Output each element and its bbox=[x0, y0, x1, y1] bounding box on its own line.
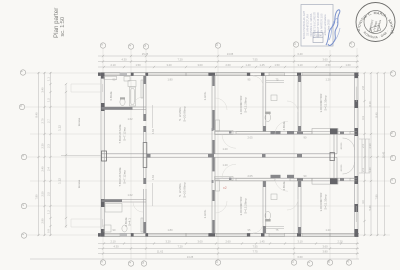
right dimension lines bbox=[365, 73, 385, 236]
svg-text:1.HOL: 1.HOL bbox=[203, 209, 207, 218]
bubble 4 left bbox=[21, 154, 26, 159]
svg-text:7.80: 7.80 bbox=[35, 194, 39, 200]
svg-text:2.DORMITOR: 2.DORMITOR bbox=[239, 196, 243, 216]
central wall columns bbox=[102, 143, 335, 168]
bubble 2' top bbox=[128, 44, 133, 49]
svg-text:7.55: 7.55 bbox=[252, 58, 258, 62]
top wall window boxes bbox=[102, 73, 355, 76]
svg-text:2.8: 2.8 bbox=[361, 86, 365, 90]
interior horizontal wall y=108 left bath top bbox=[105, 107, 147, 110]
svg-text:1.12: 1.12 bbox=[58, 125, 62, 131]
svg-text:2.3: 2.3 bbox=[361, 144, 365, 148]
svg-text:1.40: 1.40 bbox=[245, 63, 251, 67]
stamp faint text lines (rotated) bbox=[303, 11, 331, 40]
svg-text:4.0: 4.0 bbox=[361, 200, 365, 204]
bubble C bottom bbox=[291, 260, 296, 265]
axis F x=103 bbox=[102, 49, 104, 259]
central wall extension line left bbox=[61, 155, 101, 157]
bubble A bottom bbox=[346, 260, 351, 265]
svg-text:1.12: 1.12 bbox=[58, 178, 62, 184]
interior horizontal wall y=132 top unit bbox=[215, 132, 357, 135]
left dimension ticks bbox=[37, 72, 67, 236]
svg-text:6.40: 6.40 bbox=[297, 52, 303, 56]
svg-text:8.40: 8.40 bbox=[35, 112, 39, 118]
interior horizontal wall y=179 bottom unit bbox=[215, 178, 357, 181]
axis B x=330 bbox=[329, 50, 331, 259]
svg-text:1.62: 1.62 bbox=[151, 128, 155, 134]
svg-text:2.90: 2.90 bbox=[41, 218, 45, 224]
svg-text:1.HOL: 1.HOL bbox=[203, 91, 207, 100]
washing machine top-left bbox=[128, 81, 136, 87]
WC bottom bath2 bbox=[265, 211, 271, 221]
wall blocks top bath2 bbox=[271, 131, 281, 134]
bubble 2' bottom bbox=[128, 261, 133, 266]
svg-text:S=12.28mp: S=12.28mp bbox=[244, 97, 248, 113]
axis D x=218 bbox=[217, 49, 219, 259]
porch wall stubs at x=334 bbox=[334, 134, 337, 178]
right wall openings bbox=[355, 87, 357, 222]
column at left wall bbox=[102, 151, 107, 161]
svg-text:terasa: terasa bbox=[77, 118, 81, 127]
svg-text:16.45: 16.45 bbox=[382, 151, 386, 158]
counter top-left bath bbox=[104, 76, 117, 79]
central party wall bbox=[101, 154, 337, 158]
svg-text:1.62: 1.62 bbox=[127, 193, 133, 197]
interior vertical wall x=144 segments bbox=[144, 76, 147, 233]
svg-text:1:50: 1:50 bbox=[315, 34, 321, 38]
svg-text:2.60: 2.60 bbox=[225, 63, 231, 67]
svg-text:1.50: 1.50 bbox=[135, 63, 141, 67]
bubble A top bbox=[349, 42, 354, 47]
bottom exterior wall double line bbox=[98, 233, 359, 236]
bubble 4 right bbox=[390, 155, 395, 160]
WC top-left bbox=[120, 97, 125, 105]
bubble B bottom bbox=[327, 260, 332, 265]
washing machine bottom-left bbox=[104, 225, 111, 232]
svg-text:sc. 1:50: sc. 1:50 bbox=[60, 17, 66, 37]
axis C x=294 bbox=[293, 48, 295, 259]
svg-text:A: A bbox=[349, 42, 353, 44]
entry door arcs bbox=[343, 138, 355, 174]
svg-text:x2: x2 bbox=[223, 186, 227, 190]
axis E x=146 bbox=[145, 50, 147, 259]
svg-text:15.25: 15.25 bbox=[142, 52, 149, 56]
grid axis vertical lines bbox=[103, 48, 357, 259]
interior vertical wall x=263 bottom unit bbox=[263, 181, 266, 233]
svg-text:2.40: 2.40 bbox=[368, 167, 372, 173]
svg-text:2.20: 2.20 bbox=[337, 240, 343, 244]
terrace top-left bbox=[71, 84, 101, 92]
wall D piers bbox=[212, 76, 214, 233]
inner circle bbox=[364, 11, 387, 34]
door leaf top-left bath bbox=[141, 80, 143, 98]
svg-text:acces: acces bbox=[340, 142, 343, 149]
bottom bubbles bbox=[100, 260, 352, 267]
svg-text:E: E bbox=[143, 44, 147, 46]
partition line x152 top bbox=[152, 105, 154, 206]
svg-text:1.62: 1.62 bbox=[151, 174, 155, 180]
bubble 1 left bbox=[21, 233, 26, 238]
grid axis horizontal lines bbox=[25, 73, 390, 235]
right dimension numbers (rotated) bbox=[361, 86, 386, 211]
svg-text:terasa: terasa bbox=[77, 180, 81, 189]
svg-text:2.4: 2.4 bbox=[47, 167, 51, 171]
axis 5 y=134 bbox=[30, 133, 390, 135]
shelf top bath2 bbox=[266, 81, 284, 83]
bubble D top bbox=[215, 43, 220, 48]
door leaf bottom-left bath bbox=[141, 218, 143, 232]
svg-text:2.05: 2.05 bbox=[247, 136, 253, 140]
block right of pilaster bbox=[147, 154, 151, 158]
bottom dimension numbers bbox=[110, 240, 343, 260]
top dimension lines bbox=[98, 56, 359, 67]
svg-text:7.20: 7.20 bbox=[177, 245, 183, 249]
bubble 3 right bbox=[390, 178, 395, 183]
svg-text:F: F bbox=[100, 260, 104, 262]
interior horizontal wall y=200 left bath bottom bbox=[105, 199, 147, 202]
svg-text:3.20: 3.20 bbox=[166, 63, 172, 67]
svg-text:2.30: 2.30 bbox=[41, 143, 45, 149]
svg-text:1.20: 1.20 bbox=[222, 163, 228, 167]
interior vertical wall x=298 top unit bbox=[298, 76, 301, 132]
axis 7 y=73 bbox=[26, 72, 390, 74]
svg-text:1.80: 1.80 bbox=[167, 78, 173, 82]
bottom dimension ticks bbox=[102, 242, 358, 254]
top wall dark tees bbox=[98, 73, 359, 76]
bottom wall window boxes bbox=[102, 233, 355, 236]
left exterior wall bbox=[101, 73, 105, 237]
block at x=263 bbox=[262, 154, 266, 158]
svg-text:1.80: 1.80 bbox=[167, 228, 173, 232]
svg-text:2.50: 2.50 bbox=[41, 191, 45, 197]
interior vertical wall D x=212 bottom unit bbox=[212, 157, 215, 233]
svg-text:2.10: 2.10 bbox=[110, 63, 116, 67]
kitchen counter bottom unit bbox=[212, 177, 234, 192]
wall blocks bottom bath2 bbox=[271, 175, 281, 178]
svg-text:1.20: 1.20 bbox=[325, 228, 331, 232]
svg-text:1.20: 1.20 bbox=[222, 147, 228, 151]
sink bottom bath2 bbox=[271, 194, 277, 200]
svg-text:2.4: 2.4 bbox=[361, 168, 365, 172]
right wall piers bbox=[355, 73, 359, 237]
svg-text:S=20.96mp: S=20.96mp bbox=[183, 106, 187, 122]
outer circle bbox=[356, 3, 395, 42]
svg-text:4.BAIE: 4.BAIE bbox=[282, 121, 286, 130]
bottom wall dark tees bbox=[98, 233, 359, 236]
bubble 7 left bbox=[20, 70, 25, 75]
left bubbles bbox=[19, 70, 27, 238]
axis A x=357 bbox=[356, 48, 358, 259]
bubble E top bbox=[143, 44, 148, 49]
bubble 6 left bbox=[19, 104, 24, 109]
svg-text:1.1: 1.1 bbox=[47, 77, 51, 81]
bathtub top-left bbox=[130, 87, 136, 106]
WC top bath2 bbox=[265, 112, 271, 122]
svg-text:3.80: 3.80 bbox=[322, 250, 328, 254]
svg-text:2.40: 2.40 bbox=[41, 166, 45, 172]
svg-text:2.7: 2.7 bbox=[47, 119, 51, 123]
svg-text:1.60: 1.60 bbox=[345, 63, 351, 67]
svg-text:7.80: 7.80 bbox=[375, 194, 379, 200]
top exterior wall double line bbox=[98, 73, 359, 76]
svg-text:1.5: 1.5 bbox=[47, 98, 51, 102]
top dimension numbers bbox=[110, 52, 351, 67]
svg-text:0.9: 0.9 bbox=[47, 229, 51, 233]
stamp border bbox=[301, 5, 333, 47]
svg-text:5.40: 5.40 bbox=[368, 205, 372, 211]
svg-text:3.DORMITOR: 3.DORMITOR bbox=[319, 93, 323, 113]
entry porch labels bbox=[340, 142, 343, 171]
block at x=298 bbox=[297, 154, 302, 158]
svg-text:2.10: 2.10 bbox=[110, 240, 116, 244]
top bubbles bbox=[100, 42, 355, 50]
svg-text:A: A bbox=[346, 260, 350, 262]
right dimension ticks bbox=[363, 72, 385, 236]
bubble D bottom bbox=[215, 260, 220, 265]
svg-text:13.05: 13.05 bbox=[227, 52, 234, 56]
svg-text:3.3: 3.3 bbox=[361, 116, 365, 120]
axis 6 y=107 bbox=[25, 106, 390, 108]
svg-text:3.00: 3.00 bbox=[197, 63, 203, 67]
svg-text:13.25: 13.25 bbox=[187, 255, 194, 259]
svg-text:2.60: 2.60 bbox=[225, 240, 231, 244]
svg-text:2.5: 2.5 bbox=[47, 192, 51, 196]
svg-text:data 2008: data 2008 bbox=[328, 19, 331, 31]
bubble 5 right bbox=[390, 131, 395, 136]
svg-text:S=11.35mp: S=11.35mp bbox=[324, 194, 328, 210]
svg-text:2.DORMITOR: 2.DORMITOR bbox=[239, 95, 243, 115]
right bubbles bbox=[390, 71, 396, 184]
svg-text:3.20: 3.20 bbox=[165, 240, 171, 244]
small interior dimension smudges bbox=[113, 78, 332, 233]
interior door arcs bbox=[133, 76, 298, 233]
svg-text:3.DORMITOR: 3.DORMITOR bbox=[319, 192, 323, 212]
bubble F bottom bbox=[100, 260, 105, 265]
svg-text:2.70: 2.70 bbox=[41, 118, 45, 124]
svg-text:3.10: 3.10 bbox=[297, 240, 303, 244]
svg-text:S=11.35mp: S=11.35mp bbox=[324, 95, 328, 111]
svg-text:7.55: 7.55 bbox=[252, 245, 258, 249]
svg-text:7.75: 7.75 bbox=[252, 250, 258, 254]
svg-text:7.20: 7.20 bbox=[177, 58, 183, 62]
svg-text:S=7.12mp: S=7.12mp bbox=[123, 170, 127, 184]
column at right end bbox=[330, 153, 335, 161]
svg-text:1.45: 1.45 bbox=[259, 63, 265, 67]
interior vertical wall D x=212 top unit bbox=[212, 76, 215, 154]
stamp inner box bbox=[313, 33, 323, 43]
svg-text:S=20.96mp: S=20.96mp bbox=[183, 182, 187, 198]
svg-text:2.05: 2.05 bbox=[247, 174, 253, 178]
svg-text:1.62: 1.62 bbox=[127, 117, 133, 121]
center text bbox=[367, 19, 382, 33]
svg-text:1.20: 1.20 bbox=[325, 78, 331, 82]
svg-text:Plan parter: Plan parter bbox=[53, 8, 60, 38]
bottom wall infill light block bbox=[120, 233, 127, 236]
svg-text:S=4.1: S=4.1 bbox=[128, 218, 132, 226]
bubble F top bbox=[100, 43, 105, 48]
svg-text:2.50: 2.50 bbox=[325, 63, 331, 67]
cabinet top-left bath bbox=[124, 76, 130, 81]
svg-text:5. LIVING: 5. LIVING bbox=[178, 107, 182, 121]
svg-text:acces: acces bbox=[340, 164, 343, 171]
left wall piers bbox=[101, 73, 105, 237]
top wall infill light block bbox=[120, 73, 127, 76]
left dimension numbers (rotated) bbox=[35, 77, 51, 233]
interior vertical wall x=263 top unit bbox=[263, 76, 266, 132]
block at x=211 bbox=[208, 154, 214, 158]
svg-text:6.10: 6.10 bbox=[368, 101, 372, 107]
terrace bottom-left bbox=[71, 219, 101, 227]
bottom dimension lines bbox=[30, 244, 359, 260]
blue signature scribble bbox=[326, 10, 340, 46]
axis F' x=131 bbox=[130, 50, 132, 259]
bubble 7 right bbox=[390, 71, 395, 76]
entry steps right side bbox=[359, 139, 370, 173]
svg-text:4.30: 4.30 bbox=[121, 58, 127, 62]
axis 4 y=157 bbox=[27, 156, 390, 158]
svg-text:5. LIVING: 5. LIVING bbox=[178, 183, 182, 197]
svg-text:3.00: 3.00 bbox=[197, 240, 203, 244]
svg-text:1.2: 1.2 bbox=[47, 210, 51, 214]
svg-text:E: E bbox=[141, 261, 145, 263]
bubble C top bbox=[293, 42, 298, 47]
interior vertical wall x=298 bottom unit bbox=[298, 181, 301, 233]
top dimension ticks bbox=[102, 55, 358, 68]
bubble 2 left bbox=[21, 203, 26, 208]
svg-text:2.3: 2.3 bbox=[47, 144, 51, 148]
svg-text:6.BAIE: 6.BAIE bbox=[109, 91, 113, 100]
svg-text:11.62: 11.62 bbox=[157, 250, 164, 254]
svg-text:3.40: 3.40 bbox=[41, 87, 45, 93]
center box bbox=[371, 25, 381, 32]
axis 3 y=181 bbox=[30, 180, 390, 182]
svg-text:7.BUCATARIE: 7.BUCATARIE bbox=[118, 124, 122, 143]
svg-text:3.10: 3.10 bbox=[297, 63, 303, 67]
svg-text:4.BAIE: 4.BAIE bbox=[282, 181, 286, 190]
svg-text:B: B bbox=[327, 260, 331, 262]
svg-text:6.60: 6.60 bbox=[297, 255, 303, 259]
kitchen counter top unit bbox=[212, 120, 234, 135]
svg-text:3.60: 3.60 bbox=[322, 58, 328, 62]
svg-text:2.30: 2.30 bbox=[368, 143, 372, 149]
sink top bath2 bbox=[271, 95, 277, 101]
svg-text:8.40: 8.40 bbox=[375, 112, 379, 118]
svg-text:7.BUCATARIE: 7.BUCATARIE bbox=[118, 167, 122, 186]
tall pilaster at x=144 bbox=[143, 143, 147, 168]
svg-text:S=7.12mp: S=7.12mp bbox=[123, 127, 127, 141]
svg-text:4.30: 4.30 bbox=[113, 245, 119, 249]
axis 1 y=235 bbox=[27, 234, 390, 236]
bubble E bottom bbox=[141, 261, 146, 266]
svg-text:1.45: 1.45 bbox=[259, 240, 265, 244]
shelf bottom bath2 bbox=[266, 226, 284, 228]
right exterior wall bbox=[355, 73, 359, 237]
svg-text:3.60: 3.60 bbox=[322, 245, 328, 249]
bubble 1 bottom bbox=[307, 261, 312, 266]
left wall door glazing bbox=[102, 84, 104, 227]
svg-text:1.50: 1.50 bbox=[274, 63, 280, 67]
WC bottom-left bbox=[122, 225, 127, 232]
svg-text:F: F bbox=[100, 43, 104, 45]
svg-text:S=12.28mp: S=12.28mp bbox=[244, 198, 248, 214]
counter bottom-left bath bbox=[105, 204, 122, 213]
left dimension lines bbox=[39, 72, 67, 236]
axis 2 y=206 bbox=[27, 205, 390, 207]
